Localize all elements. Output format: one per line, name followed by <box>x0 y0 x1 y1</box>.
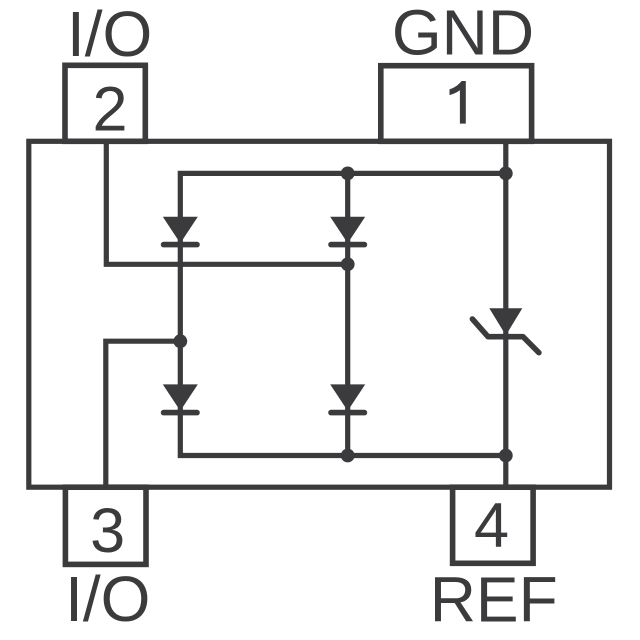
zener Z1 cathode bar <box>472 319 539 353</box>
diode D3 <box>330 217 365 244</box>
node B dot (pin 3 wire / left column) <box>173 334 187 348</box>
node dot bottom rail / right column <box>499 449 513 463</box>
node A dot (pin 2 wire / middle column) <box>341 257 355 271</box>
svg-text:4: 4 <box>474 491 509 561</box>
pin 2 box <box>65 65 145 141</box>
diode D4 cathode bar <box>331 410 364 416</box>
wire top rail, left column, bottom rail <box>180 173 506 455</box>
node dot bottom rail / middle column <box>341 449 355 463</box>
svg-text:REF: REF <box>430 564 558 636</box>
diode D2 <box>163 384 198 411</box>
svg-text:3: 3 <box>90 496 125 566</box>
pin 4 box (REF) <box>453 487 533 563</box>
wire middle column <box>345 173 350 455</box>
svg-text:I/O: I/O <box>67 0 152 70</box>
node dot top rail / right column <box>499 167 513 181</box>
diode D2 cathode bar <box>164 410 197 416</box>
diode D1 <box>163 217 198 244</box>
wire from pin 3 to node B <box>106 341 181 487</box>
pin 3 box <box>65 487 146 564</box>
wire from pin 2 to node A <box>106 141 347 264</box>
svg-text:2: 2 <box>92 75 127 145</box>
diode D3 cathode bar <box>331 242 364 248</box>
zener diode Z1 triangle <box>489 308 522 335</box>
svg-text:I/O: I/O <box>65 563 150 635</box>
pin number 1 (drawn glyph, Arial-style) <box>450 81 466 124</box>
wire right column (GND to REF) <box>503 141 508 487</box>
svg-text:GND: GND <box>392 0 534 69</box>
pin 1 box (GND) <box>381 66 532 142</box>
diode D1 cathode bar <box>164 242 197 248</box>
diode D4 <box>330 384 365 411</box>
package outline <box>29 141 610 487</box>
node dot top rail / middle column <box>341 167 355 181</box>
